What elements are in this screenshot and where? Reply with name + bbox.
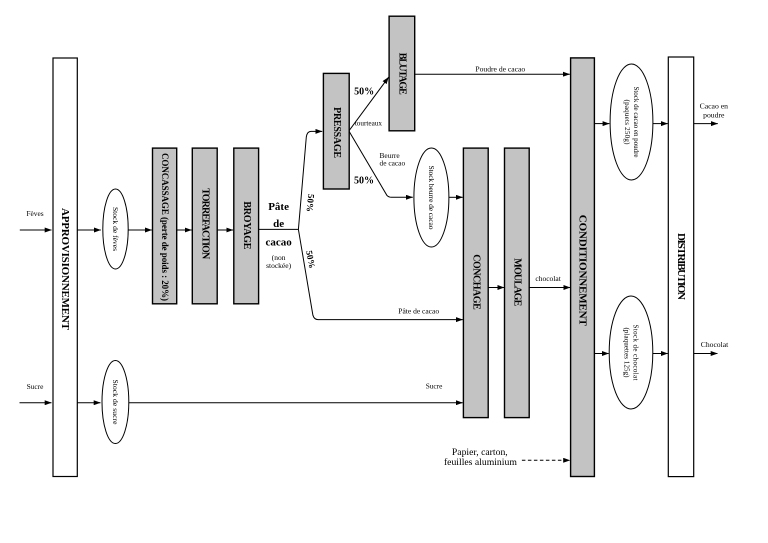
ellipse stock beurre de cacao xyxy=(414,148,449,247)
box APPROVISIONNEMENT xyxy=(53,58,77,477)
svg-text:stockée): stockée) xyxy=(266,261,291,270)
svg-text:50%: 50% xyxy=(304,250,317,270)
sucre line to conchage xyxy=(129,402,463,404)
ellipse stock de sucre xyxy=(102,361,129,444)
ellipse stock de cacao en poudre xyxy=(610,64,653,180)
svg-text:Sucre: Sucre xyxy=(426,382,443,391)
svg-text:Pâte de cacao: Pâte de cacao xyxy=(398,307,439,316)
box DISTRIBUTION xyxy=(668,57,693,477)
output arrow cacao en poudre xyxy=(694,123,718,125)
svg-text:Sucre: Sucre xyxy=(27,382,45,391)
svg-text:DISTRIBUTION: DISTRIBUTION xyxy=(675,233,687,300)
box TORREFACTION xyxy=(192,148,217,304)
arrow stock de fèves to concassage xyxy=(128,229,152,231)
svg-text:tourteaux: tourteaux xyxy=(355,120,383,128)
svg-text:chocolat: chocolat xyxy=(535,274,561,283)
box CONCASSAGE xyxy=(153,148,177,304)
ellipse stock de chocolat xyxy=(609,296,653,409)
wire pressage to stock beurre de cacao xyxy=(349,132,413,198)
svg-text:Stock de fèves: Stock de fèves xyxy=(111,207,120,251)
svg-text:50%: 50% xyxy=(354,175,374,186)
svg-text:BLUTAGE: BLUTAGE xyxy=(396,53,407,95)
arrow torrefaction to broyage xyxy=(217,229,233,231)
svg-text:MOULAGE: MOULAGE xyxy=(511,258,522,306)
svg-text:cacao: cacao xyxy=(265,237,292,249)
wire appro to stock de fèves xyxy=(78,229,101,231)
svg-text:de cacao: de cacao xyxy=(380,159,406,168)
arrow conchage to moulage xyxy=(488,287,504,289)
svg-text:TORREFACTION: TORREFACTION xyxy=(199,188,210,260)
wire moulage to conditionnement (chocolat) xyxy=(529,287,570,289)
wire conditionnement to stock de chocolat xyxy=(594,353,608,355)
wire pressage to blutage xyxy=(349,77,388,130)
svg-text:Stock de chocolat(plaquettes 1: Stock de chocolat(plaquettes 125g) xyxy=(623,325,640,381)
box BLUTAGE xyxy=(389,16,415,131)
svg-text:CONDITIONNEMENT: CONDITIONNEMENT xyxy=(577,215,589,327)
svg-text:APPROVISIONNEMENT: APPROVISIONNEMENT xyxy=(59,208,71,331)
output arrow chocolat xyxy=(694,353,718,355)
arrow concassage to torrefaction xyxy=(177,229,192,231)
svg-text:Stock de sucre: Stock de sucre xyxy=(111,380,120,426)
wire junction up to pressage xyxy=(298,131,322,229)
ellipse stock de fèves xyxy=(103,189,128,269)
svg-text:Cacao en: Cacao en xyxy=(700,102,729,111)
svg-text:Stock beurre de cacao: Stock beurre de cacao xyxy=(427,166,436,230)
svg-text:Chocolat: Chocolat xyxy=(701,340,729,349)
svg-text:Fèves: Fèves xyxy=(26,209,43,218)
svg-text:Pâte: Pâte xyxy=(268,201,289,213)
input arrow Sucre xyxy=(20,402,52,404)
box BROYAGE xyxy=(234,148,259,304)
arrow stock beurre to conchage xyxy=(449,196,463,198)
svg-text:de: de xyxy=(273,218,284,230)
box CONCHAGE xyxy=(463,148,488,418)
svg-text:poudre: poudre xyxy=(703,111,725,120)
wire broyage to junction xyxy=(259,228,299,230)
svg-text:50%: 50% xyxy=(305,194,317,213)
box PRESSAGE xyxy=(323,73,349,189)
wire blutage to conditionnement (poudre de cacao) xyxy=(415,73,570,75)
svg-text:50%: 50% xyxy=(354,86,374,97)
box CONDITIONNEMENT xyxy=(571,58,595,477)
svg-text:Poudre de cacao: Poudre de cacao xyxy=(475,65,525,74)
arrow stock chocolat to distribution xyxy=(653,353,668,355)
wire junction down to pâte de cacao line, arrow into conchage xyxy=(298,229,462,319)
box MOULAGE xyxy=(505,148,530,418)
input arrow Fèves xyxy=(20,229,52,231)
label Pâte de cacao (non stockée) xyxy=(265,201,292,270)
dashed arrow papier to conditionnement xyxy=(522,459,570,461)
svg-text:PRESSAGE: PRESSAGE xyxy=(331,107,342,158)
svg-text:feuilles aluminium: feuilles aluminium xyxy=(444,457,517,468)
wire appro to stock de sucre xyxy=(78,402,101,404)
svg-text:BROYAGE: BROYAGE xyxy=(241,201,252,249)
svg-text:CONCASSAGE (perte de poids : 2: CONCASSAGE (perte de poids : 20%) xyxy=(160,153,170,301)
arrow stock poudre to distribution xyxy=(653,123,668,125)
svg-text:CONCHAGE: CONCHAGE xyxy=(470,254,481,310)
wire conditionnement to stock de cacao en poudre xyxy=(594,123,609,125)
